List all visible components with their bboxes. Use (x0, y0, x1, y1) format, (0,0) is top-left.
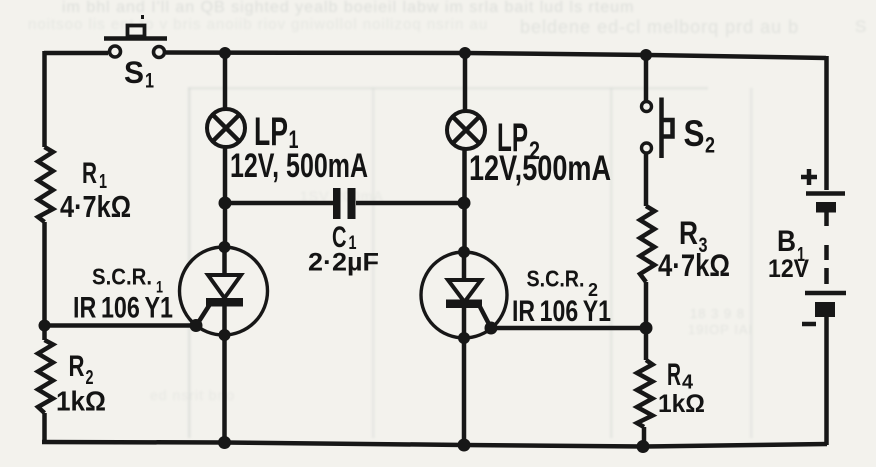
svg-text:4·7kΩ: 4·7kΩ (60, 189, 131, 224)
svg-text:R: R (82, 157, 97, 190)
svg-text:B: B (777, 225, 796, 258)
svg-text:19IOP IAI: 19IOP IAI (688, 322, 753, 337)
svg-text:IR 106 Y1: IR 106 Y1 (73, 292, 173, 325)
svg-text:S: S (124, 54, 144, 90)
svg-text:12V,500mA: 12V,500mA (469, 149, 611, 188)
svg-text:R: R (69, 350, 85, 383)
svg-text:S.C.R.: S.C.R. (92, 264, 152, 290)
svg-text:im bhl and I'll an QB sighted: im bhl and I'll an QB sighted yealb boei… (62, 0, 634, 16)
svg-text:1: 1 (145, 70, 154, 93)
svg-text:S: S (855, 17, 867, 36)
svg-text:S: S (684, 113, 705, 154)
svg-text:2: 2 (705, 133, 715, 158)
svg-text:12V: 12V (768, 255, 809, 283)
svg-text:beldene ed-cl melborq prd au: beldene ed-cl melborq prd au b (520, 17, 799, 37)
svg-text:2·2µF: 2·2µF (308, 250, 379, 277)
svg-text:1kΩ: 1kΩ (56, 386, 106, 417)
svg-text:noitsoo lis ent to v bris anoi: noitsoo lis ent to v bris anoiib riov gn… (28, 16, 488, 33)
svg-text:1kΩ: 1kΩ (658, 390, 705, 418)
svg-text:S.C.R.: S.C.R. (527, 266, 585, 292)
svg-text:18 3 9 8: 18 3 9 8 (690, 306, 745, 321)
svg-text:4·7kΩ: 4·7kΩ (658, 247, 730, 283)
svg-text:IR 106 Y1: IR 106 Y1 (512, 295, 611, 328)
svg-text:R: R (679, 215, 698, 251)
svg-text:12V, 500mA: 12V, 500mA (230, 147, 368, 185)
svg-text:R: R (667, 356, 681, 392)
